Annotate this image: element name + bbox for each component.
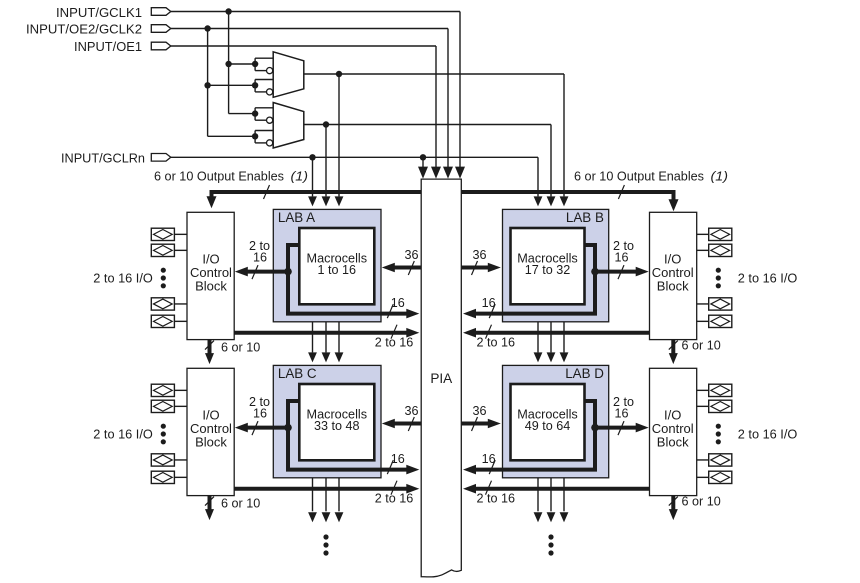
- tick 2-to-16 left row2: [391, 481, 397, 495]
- svg-text:Block: Block: [195, 435, 227, 450]
- svg-text:2 to 16: 2 to 16: [477, 336, 516, 350]
- junction LAB C bus: [284, 424, 292, 432]
- arrow 36 into LAB C: [382, 419, 395, 429]
- I/O cell left r2-3: [151, 454, 174, 466]
- arrow 6-or-10 right row2: [669, 509, 678, 520]
- arrow into PIA 4: [455, 167, 465, 179]
- tick 16 right row2: [489, 460, 495, 474]
- mux U1 (GCLK select): [273, 52, 304, 98]
- macrocell box 33 to 48: [299, 384, 374, 460]
- I/O cell left r1-1: [151, 228, 174, 240]
- bus 2-to-16 left row2: [234, 487, 412, 491]
- svg-text:36: 36: [404, 404, 418, 418]
- tick OE bus left: [264, 185, 270, 199]
- wire I/O cell right r2-4: [697, 476, 709, 478]
- wire left clock drop 2: [325, 125, 327, 197]
- bus 36 PIA to LAB B: [461, 266, 493, 270]
- arrow into LAB B 3: [560, 196, 569, 206]
- ellipsis I/O left row1: [161, 268, 166, 273]
- svg-text:Block: Block: [657, 279, 689, 294]
- svg-text:6 or 10: 6 or 10: [682, 495, 721, 509]
- junction fork mux2 input2: [252, 133, 258, 139]
- fork mux1 input2 (true/complement): [255, 79, 273, 81]
- svg-text:(1): (1): [711, 170, 729, 184]
- svg-text:6 or 10 Output Enables: 6 or 10 Output Enables: [154, 170, 284, 184]
- LAB C block: [273, 365, 381, 477]
- tick 16 left row1: [387, 304, 393, 318]
- wire PIA clock drop 3: [447, 29, 449, 168]
- I/O Control Block left row2: [187, 368, 234, 495]
- junction GCLK2/drop: [204, 25, 210, 31]
- bus 2-to-16 left row1: [234, 331, 412, 335]
- tick OE bus right: [618, 185, 624, 199]
- svg-text:6 or 10: 6 or 10: [221, 496, 260, 510]
- I/O cell right r1-4: [709, 315, 732, 327]
- arrow LAB C bus into I/O block: [235, 423, 248, 433]
- svg-text:(1): (1): [291, 170, 309, 184]
- ellipsis clocks left: [323, 534, 328, 539]
- svg-text:16: 16: [391, 296, 405, 310]
- junction LAB D bus: [591, 424, 599, 432]
- macrocell box 49 to 64: [511, 384, 585, 460]
- svg-text:LAB D: LAB D: [565, 366, 604, 381]
- bus 2-to-16 right row2: [471, 487, 650, 491]
- wire GCLRn horizontal: [171, 156, 538, 158]
- svg-text:16: 16: [482, 296, 496, 310]
- junction GCLRn/PIA drop: [420, 154, 426, 160]
- arrow into LAB A 2: [322, 196, 331, 206]
- junction mux2-out/left drop: [323, 121, 329, 127]
- bubble mux1 input1 inverted: [267, 68, 273, 74]
- junction fork mux1 input1: [252, 61, 258, 67]
- tick LAB C 2-to-16 left-arrow: [252, 421, 258, 435]
- svg-text:INPUT/OE1: INPUT/OE1: [74, 39, 142, 54]
- svg-text:6 or 10 Output Enables: 6 or 10 Output Enables: [574, 170, 704, 184]
- I/O cell right r2-3: [709, 454, 732, 466]
- I/O Control Block right row2: [650, 368, 697, 495]
- svg-text:36: 36: [472, 248, 486, 262]
- I/O cell right r2-1: [709, 384, 732, 396]
- wire mux2 input1 stub: [229, 113, 256, 115]
- svg-text:16: 16: [614, 250, 628, 264]
- wire clock right LAB-to-LAB 1: [537, 322, 539, 353]
- arrow into LAB B 2: [547, 196, 556, 206]
- wire PIA clock drop 4: [459, 12, 461, 168]
- svg-text:2 to 16 I/O: 2 to 16 I/O: [93, 271, 153, 285]
- bus 36 PIA to LAB D: [461, 422, 493, 426]
- svg-text:6 or 10: 6 or 10: [682, 339, 721, 353]
- junction fork mux1 input2: [252, 82, 258, 88]
- PIA block: [421, 179, 461, 577]
- wire GCLK2 drop to muxes: [207, 29, 209, 137]
- wire I/O cell left r2-4: [174, 476, 187, 478]
- tick 6-or-10 left row1: [205, 341, 214, 350]
- ellipsis I/O left row2: [161, 424, 166, 429]
- fork mux2 input2 (true/complement): [255, 130, 273, 132]
- wire left clock drop 1: [312, 157, 314, 196]
- I/O cell right r2-2: [709, 400, 732, 412]
- tick 6-or-10 right row2: [669, 497, 678, 506]
- svg-text:2 to 16 I/O: 2 to 16 I/O: [738, 427, 798, 441]
- tick 2-to-16 right row2: [486, 481, 492, 495]
- arrow into PIA 2: [431, 167, 441, 179]
- I/O cell right r1-3: [709, 298, 732, 310]
- arrow 6-or-10 right row1: [669, 353, 678, 364]
- svg-text:2 to 16 I/O: 2 to 16 I/O: [738, 271, 798, 285]
- wire 6-or-10 left row1: [208, 340, 212, 355]
- wire clock left continuation 2: [325, 478, 327, 512]
- I/O cell left r2-4: [151, 471, 174, 483]
- wire PIA clock drop 2: [435, 46, 437, 167]
- tick 16 left row2: [387, 460, 393, 474]
- svg-text:2 to 16: 2 to 16: [477, 492, 516, 506]
- input pin INPUT/GCLK1: [151, 8, 171, 16]
- wire clock left LAB-to-LAB 1: [312, 322, 314, 353]
- tick 2-to-16 left row1: [391, 325, 397, 339]
- svg-text:2 to 16 I/O: 2 to 16 I/O: [93, 427, 153, 441]
- svg-text:36: 36: [404, 248, 418, 262]
- wire 6-or-10 left row2: [208, 496, 212, 511]
- arrow 2-to-16 left into PIA row1: [406, 328, 419, 338]
- arrow OE bus into right I/O block: [669, 199, 679, 211]
- wire clock left continuation 1: [312, 478, 314, 512]
- svg-text:INPUT/GCLK1: INPUT/GCLK1: [56, 5, 142, 20]
- wire mux U1 output: [304, 73, 564, 75]
- tick 6-or-10 right row1: [669, 341, 678, 350]
- arrow 36 into LAB B: [488, 263, 501, 273]
- wire clock right continuation 1: [537, 478, 539, 512]
- wire mux U2 output: [304, 124, 551, 126]
- I/O cell left r1-2: [151, 244, 174, 256]
- svg-text:INPUT/GCLRn: INPUT/GCLRn: [61, 151, 145, 166]
- LAB D block: [503, 365, 609, 477]
- wire I/O cell left r1-2: [174, 249, 187, 251]
- arrow into PIA 1: [418, 167, 428, 179]
- arrow into LAB C 3: [335, 352, 344, 362]
- svg-text:16: 16: [253, 250, 267, 264]
- svg-text:LAB C: LAB C: [278, 366, 317, 381]
- I/O cell right r2-4: [709, 471, 732, 483]
- svg-text:33 to 48: 33 to 48: [314, 419, 360, 433]
- junction mux1-out/left drop: [336, 71, 342, 77]
- arrow clock left continuation 3: [335, 512, 344, 522]
- svg-text:2 to 16: 2 to 16: [375, 336, 414, 350]
- bus LAB C macrocell feedback: [288, 401, 412, 470]
- svg-text:16: 16: [614, 406, 628, 420]
- wire GCLK1 drop to muxes: [228, 12, 230, 114]
- wire clock right continuation 3: [563, 478, 565, 512]
- input pin INPUT/OE1: [151, 42, 171, 50]
- wire I/O cell right r1-4: [697, 320, 709, 322]
- wire OE1 horizontal: [171, 45, 436, 47]
- arrow into LAB D 2: [547, 352, 556, 362]
- input pin INPUT/GCLRn: [151, 154, 171, 162]
- arrow into LAB C 2: [322, 352, 331, 362]
- junction LAB B bus: [591, 268, 599, 276]
- arrow LAB D bus into I/O block: [636, 423, 649, 433]
- I/O Control Block right row1: [650, 212, 697, 339]
- bus output-enable left: [212, 192, 422, 198]
- wire I/O cell right r2-1: [697, 389, 709, 391]
- bus 36 PIA to LAB C: [389, 422, 421, 426]
- wire I/O cell left r2-1: [174, 389, 187, 391]
- wire I/O cell left r2-2: [174, 405, 187, 407]
- svg-text:49 to 64: 49 to 64: [525, 419, 571, 433]
- ellipsis I/O right row1: [716, 268, 721, 273]
- arrow clock right continuation 2: [547, 512, 556, 522]
- arrow into LAB D 3: [560, 352, 569, 362]
- svg-text:6 or 10: 6 or 10: [221, 340, 260, 354]
- arrow into PIA 3: [443, 167, 453, 179]
- I/O cell left r2-1: [151, 384, 174, 396]
- wire right clock drop 3: [563, 74, 565, 196]
- tick 2-to-16 right row1: [486, 325, 492, 339]
- svg-text:Block: Block: [657, 435, 689, 450]
- arrow LAB B 16-bus into PIA: [463, 309, 476, 319]
- wire left clock drop 3: [338, 74, 340, 196]
- arrow 6-or-10 left row2: [205, 509, 214, 520]
- svg-text:LAB B: LAB B: [566, 210, 604, 225]
- tick 16 right row1: [489, 304, 495, 318]
- tick 36 left row2: [408, 417, 414, 431]
- wire mux2 input2 stub: [208, 135, 256, 137]
- svg-text:16: 16: [391, 452, 405, 466]
- bus LAB A macrocell feedback: [288, 245, 412, 314]
- tick 36 right row2: [472, 417, 478, 431]
- wire 6-or-10 right row1: [671, 340, 675, 355]
- bubble mux2 input1 inverted: [267, 117, 273, 123]
- wire clock left LAB-to-LAB 3: [338, 322, 340, 353]
- bus LAB B macrocell feedback: [471, 245, 595, 314]
- I/O cell left r1-3: [151, 298, 174, 310]
- I/O Control Block left row1: [187, 212, 234, 339]
- LAB A block: [273, 209, 381, 321]
- tick 36 right row1: [472, 261, 478, 275]
- arrow into LAB D 1: [534, 352, 543, 362]
- wire PIA clock drop 1: [422, 157, 424, 167]
- junction mux1-in1 tap: [225, 61, 231, 67]
- wire 6-or-10 right row2: [671, 496, 675, 511]
- wire mux1 input1 stub: [229, 63, 256, 65]
- wire I/O cell left r2-3: [174, 459, 187, 461]
- arrow clock right continuation 3: [560, 512, 569, 522]
- svg-text:17 to 32: 17 to 32: [525, 263, 571, 277]
- wire clock left continuation 3: [338, 478, 340, 512]
- arrow LAB C 16-bus into PIA: [406, 465, 419, 475]
- tick 36 left row1: [408, 261, 414, 275]
- wire I/O cell left r1-3: [174, 303, 187, 305]
- wire GCLK1 horizontal: [171, 11, 460, 13]
- bus 2-to-16 right row1: [471, 331, 650, 335]
- svg-text:PIA: PIA: [430, 371, 453, 386]
- I/O cell right r1-1: [709, 228, 732, 240]
- I/O cell left r1-4: [151, 315, 174, 327]
- arrow clock left continuation 1: [308, 512, 317, 522]
- junction GCLK1/drop: [225, 8, 231, 14]
- wire I/O cell right r1-3: [697, 303, 709, 305]
- svg-text:16: 16: [253, 406, 267, 420]
- arrow into LAB A 1: [308, 196, 317, 206]
- bus LAB B to I/O block: [595, 270, 641, 274]
- arrow 2-to-16 right into PIA row2: [463, 484, 476, 494]
- wire right clock drop 1: [537, 157, 539, 196]
- junction fork mux2 input1: [252, 110, 258, 116]
- bus 36 PIA to LAB A: [389, 266, 421, 270]
- wire right clock drop 2: [550, 125, 552, 197]
- arrow into LAB B 1: [534, 196, 543, 206]
- arrow 36 into LAB A: [382, 263, 395, 273]
- svg-text:16: 16: [482, 452, 496, 466]
- arrow into LAB C 1: [308, 352, 317, 362]
- wire I/O cell right r1-1: [697, 233, 709, 235]
- bus LAB A to I/O block: [242, 270, 288, 274]
- junction mux1-in2 tap: [204, 82, 210, 88]
- wire clock left LAB-to-LAB 2: [325, 322, 327, 353]
- arrow OE bus into left I/O block: [207, 196, 217, 208]
- I/O cell right r1-2: [709, 244, 732, 256]
- arrow 2-to-16 right into PIA row1: [463, 328, 476, 338]
- tick LAB B 2-to-16 right-arrow: [618, 265, 624, 279]
- svg-text:INPUT/OE2/GCLK2: INPUT/OE2/GCLK2: [26, 22, 142, 37]
- wire I/O cell right r2-2: [697, 405, 709, 407]
- wire clock right LAB-to-LAB 3: [563, 322, 565, 353]
- bubble mux2 input2 inverted: [267, 140, 273, 146]
- arrow clock left continuation 2: [322, 512, 331, 522]
- bus LAB D to I/O block: [595, 426, 641, 430]
- arrow into LAB A 3: [335, 196, 344, 206]
- bus output-enable right: [461, 192, 673, 202]
- svg-text:LAB A: LAB A: [278, 210, 315, 225]
- tick 6-or-10 left row2: [205, 497, 214, 506]
- fork mux2 input1 (true/complement): [255, 107, 273, 109]
- wire clock right continuation 2: [550, 478, 552, 512]
- wire I/O cell right r2-3: [697, 459, 709, 461]
- mux U2 (GCLK select): [273, 103, 304, 149]
- arrow LAB B bus into I/O block: [636, 267, 649, 277]
- junction GCLRn/left drop: [309, 154, 315, 160]
- fork mux1 input1 (true/complement): [255, 57, 273, 59]
- svg-text:2 to 16: 2 to 16: [375, 492, 414, 506]
- input pin INPUT/OE2/GCLK2: [151, 25, 171, 33]
- ellipsis I/O right row2: [716, 424, 721, 429]
- svg-text:36: 36: [472, 404, 486, 418]
- arrow LAB A 16-bus into PIA: [406, 309, 419, 319]
- wire GCLK2 horizontal: [171, 28, 448, 30]
- arrow 6-or-10 left row1: [205, 353, 214, 364]
- wire clock right LAB-to-LAB 2: [550, 322, 552, 353]
- arrow LAB A bus into I/O block: [235, 267, 248, 277]
- arrow clock right continuation 1: [534, 512, 543, 522]
- wire mux1 input2 stub: [208, 84, 256, 86]
- ellipsis clocks right: [548, 534, 553, 539]
- bus LAB D macrocell feedback: [471, 401, 595, 470]
- svg-text:Block: Block: [195, 279, 227, 294]
- tick LAB D 2-to-16 right-arrow: [618, 421, 624, 435]
- bubble mux1 input2 inverted: [267, 89, 273, 95]
- wire I/O cell left r1-4: [174, 320, 187, 322]
- wire I/O cell left r1-1: [174, 233, 187, 235]
- bus LAB C to I/O block: [242, 426, 288, 430]
- macrocell box 17 to 32: [511, 228, 585, 304]
- LAB B block: [503, 209, 609, 321]
- arrow 36 into LAB D: [488, 419, 501, 429]
- arrow LAB D 16-bus into PIA: [463, 465, 476, 475]
- macrocell box 1 to 16: [299, 228, 374, 304]
- junction LAB A bus: [284, 268, 292, 276]
- wire I/O cell right r1-2: [697, 249, 709, 251]
- I/O cell left r2-2: [151, 400, 174, 412]
- svg-text:1 to 16: 1 to 16: [318, 263, 357, 277]
- tick LAB A 2-to-16 left-arrow: [252, 265, 258, 279]
- arrow 2-to-16 left into PIA row2: [406, 484, 419, 494]
